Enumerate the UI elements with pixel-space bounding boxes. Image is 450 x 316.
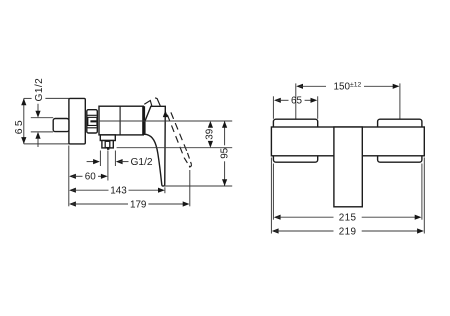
dimension 65 (vertical, side view) [14,98,26,143]
svg-text:219: 219 [339,227,357,238]
body (side view) [99,106,143,135]
label G1/2 wall connection with arrows [34,78,45,147]
dimension 215 [274,213,422,224]
extension line escutcheon top-left [24,97,69,99]
svg-text:G1/2: G1/2 [34,78,45,102]
reference line lever tip level (95) [162,185,232,187]
extension line lever tip [164,187,166,193]
extension line right connection center [399,83,401,129]
reference line lever underside (39) [117,147,233,149]
valve band between body and handle [142,106,145,135]
shower outlet nut [102,141,113,148]
extension line outlet left [99,151,101,167]
dimension 150±12 [296,82,399,93]
extension line body right [423,158,425,234]
dimension 179 [69,199,189,210]
dimension 65 (front view) [274,96,317,107]
extension line escutcheon right bottom [421,164,423,220]
extension line body left [270,158,272,234]
dimension 219 [272,227,424,238]
open lever back edge (dashed) [171,112,188,152]
shower outlet flange [100,135,115,141]
extension line nut top edge [31,117,53,119]
handle back tip spike [144,101,152,107]
svg-text:95: 95 [220,147,231,158]
dimension 60 [69,172,108,183]
extension line outlet right [114,151,116,167]
svg-text:60: 60 [85,172,96,183]
extension line left connection center [295,83,297,129]
extension line wall plane (left) [68,146,70,207]
body vertical seam [119,106,121,135]
svg-text:65: 65 [14,118,25,134]
dimension 143 [69,186,165,197]
escutcheon (side view) [69,98,85,143]
open lever tip (dashed) [184,153,191,167]
center line through body extended right [99,120,233,122]
extension line left escutcheon left [272,96,274,119]
right escutcheon (front view) [378,119,422,162]
extension line left escutcheon right [317,96,319,119]
svg-text:215: 215 [339,213,357,224]
svg-text:G1/2: G1/2 [131,157,153,168]
threaded union (side view) [87,110,98,133]
svg-text:65: 65 [291,96,302,107]
extension line escutcheon left bottom [272,164,274,220]
body bar (front view) [271,127,424,156]
handle top edge mark [155,98,160,106]
open lever front edge (dashed) [167,115,184,158]
svg-text:39: 39 [205,128,216,139]
outlet nut facets [105,141,110,147]
svg-text:179: 179 [130,199,147,210]
left escutcheon (front view) [273,119,317,162]
label G1/2 shower outlet [87,157,153,168]
extension line escutcheon bottom-left [24,143,69,145]
lever handle (front view) [334,127,362,207]
pivot wedge of open lever [163,110,168,117]
extension line outlet center [107,151,109,181]
svg-text:143: 143 [110,186,127,197]
lever handle (side view, closed) [145,106,165,186]
extension line open lever tip [189,170,191,206]
dimension 95 [220,121,231,186]
dimension 39 [205,121,216,148]
outlet nipple [107,148,109,150]
wall union nut (side view) [53,119,69,132]
svg-text:150±12: 150±12 [334,82,362,93]
extension line nut bottom edge [31,131,53,133]
